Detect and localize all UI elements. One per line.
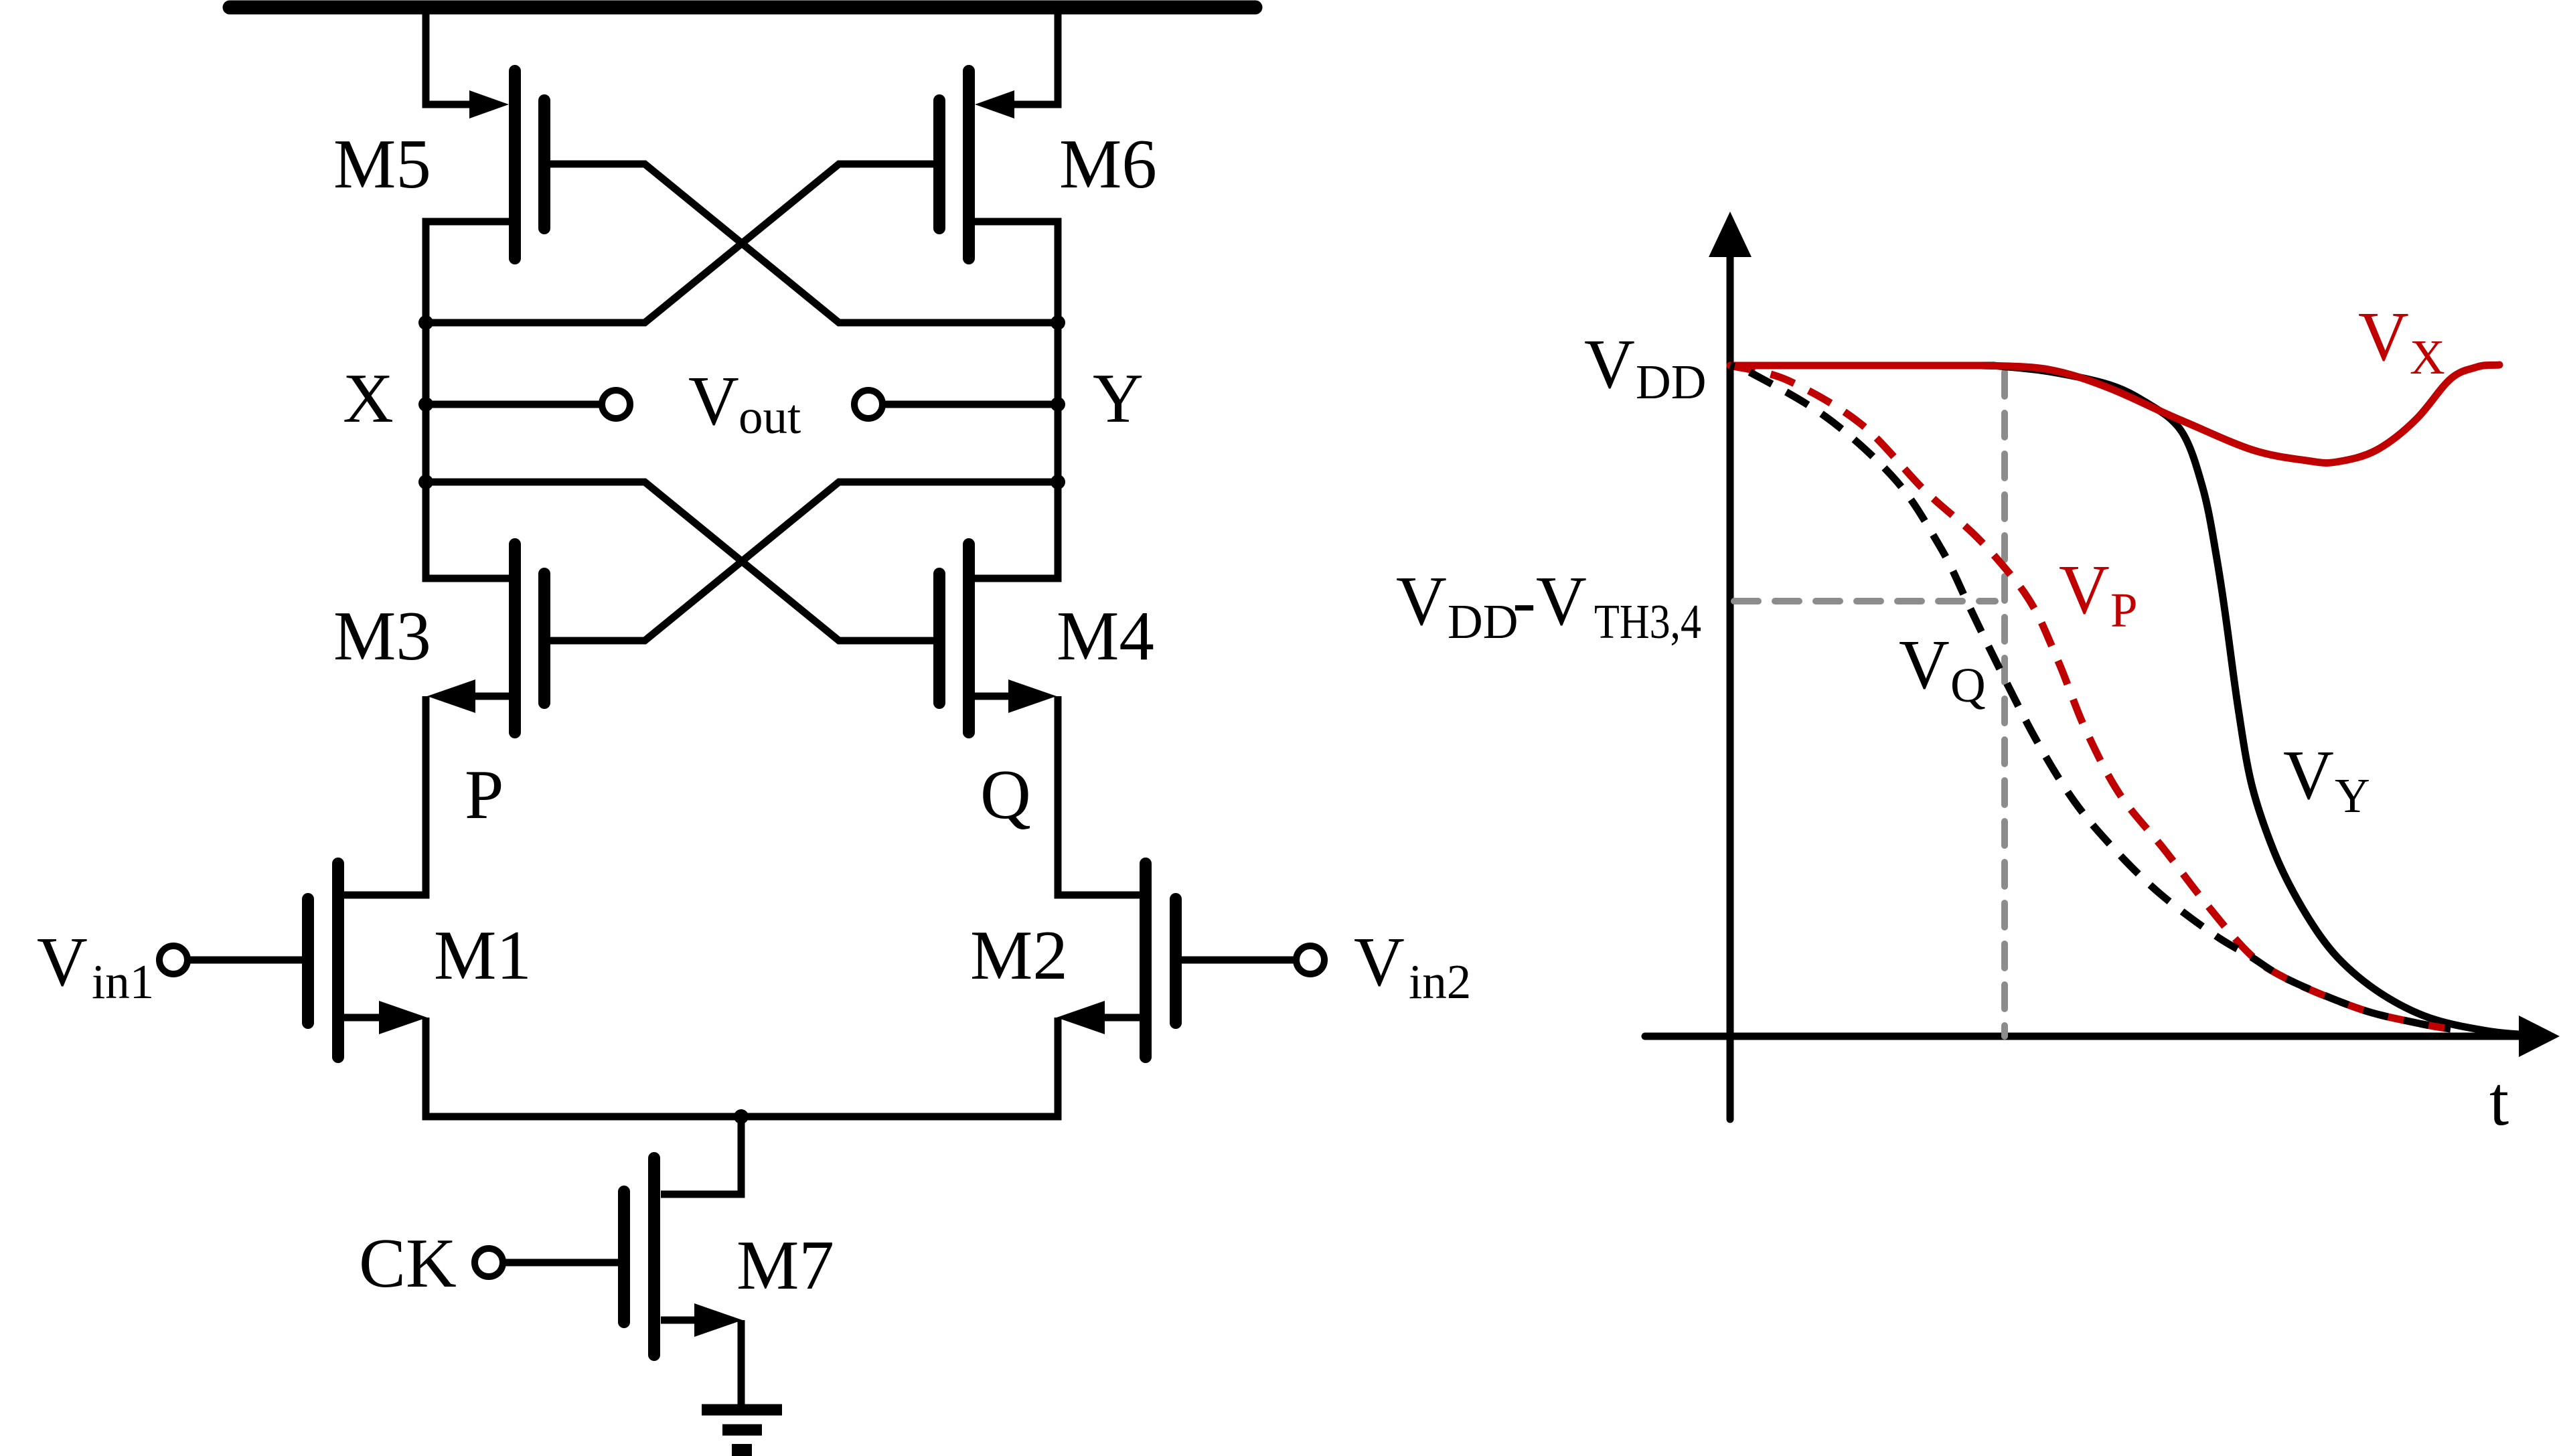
node X junction dots bbox=[418, 315, 433, 489]
svg-text:out: out bbox=[739, 390, 801, 444]
dashed guide line VDD-VTH level (gray) bbox=[1734, 598, 1995, 604]
Vin2 input terminal bbox=[1296, 946, 1324, 974]
tail junction dot bbox=[734, 1109, 749, 1124]
svg-text:V: V bbox=[2283, 736, 2334, 814]
svg-text:Q: Q bbox=[1950, 658, 1986, 712]
Vin1 label bbox=[37, 922, 154, 1009]
Vout right terminal bbox=[854, 390, 882, 418]
svg-text:V: V bbox=[1354, 922, 1405, 1001]
wire M5 gate to node Y (cross-couple) bbox=[550, 164, 1058, 323]
wire VDD to M5 source bbox=[426, 9, 473, 104]
svg-text:M3: M3 bbox=[333, 596, 431, 675]
Vout label bbox=[688, 361, 801, 444]
curve VX (node X voltage, red solid) bbox=[1730, 365, 2499, 463]
svg-text:DD: DD bbox=[1636, 355, 1706, 409]
svg-text:DD: DD bbox=[1448, 594, 1518, 649]
transistor M6 (PMOS) bbox=[939, 71, 1014, 258]
wire node X to M4 gate (cross-couple) bbox=[426, 482, 933, 641]
wire CK to M7 gate bbox=[503, 1259, 618, 1267]
wire node P column bbox=[338, 696, 426, 895]
VDD-VTH3,4 axis label bbox=[1396, 562, 1701, 649]
VQ curve label bbox=[1899, 625, 1986, 712]
wire VDD to M6 source bbox=[1011, 9, 1058, 104]
Vin1 input terminal bbox=[159, 946, 187, 974]
graph time axis (horizontal) bbox=[1645, 1016, 2560, 1057]
svg-text:CK: CK bbox=[359, 1224, 457, 1302]
transistor M7 (NMOS) bbox=[624, 1158, 743, 1355]
node Y junction dots bbox=[1051, 315, 1065, 489]
svg-text:X: X bbox=[343, 359, 394, 437]
CK input terminal bbox=[475, 1248, 503, 1277]
svg-text:M7: M7 bbox=[736, 1226, 834, 1304]
svg-text:-V: -V bbox=[1512, 562, 1587, 640]
svg-text:X: X bbox=[2410, 330, 2445, 384]
svg-text:V: V bbox=[2059, 550, 2110, 629]
svg-text:V: V bbox=[1899, 625, 1950, 704]
wire tail to M7 drain bbox=[661, 1117, 741, 1194]
svg-text:V: V bbox=[688, 361, 739, 440]
VX curve label (red) bbox=[2358, 297, 2445, 384]
transistor M4 (NMOS) bbox=[939, 544, 1057, 732]
Vin2 label bbox=[1354, 922, 1471, 1009]
svg-text:P: P bbox=[465, 755, 503, 833]
wire M6 gate to node X (cross-couple) bbox=[426, 164, 933, 323]
curve VY (node Y voltage, black solid) bbox=[1730, 366, 2528, 1035]
wire node X to Vout terminal bbox=[426, 401, 602, 408]
svg-text:Y: Y bbox=[2335, 769, 2370, 823]
wire M6 drain / node Y column bbox=[975, 222, 1058, 578]
power rail VDD bbox=[230, 1, 1255, 15]
wire node Q column bbox=[1058, 696, 1146, 895]
svg-text:V: V bbox=[1584, 325, 1635, 403]
svg-text:M6: M6 bbox=[1059, 125, 1157, 203]
transistor M5 (PMOS) bbox=[469, 71, 544, 258]
svg-text:Y: Y bbox=[1093, 359, 1144, 437]
transistor M1 (NMOS) bbox=[308, 864, 427, 1057]
wire M3 gate to node Y (cross-couple) bbox=[550, 482, 1058, 641]
transistor M2 (NMOS) bbox=[1057, 864, 1176, 1057]
curve VQ (node Q voltage, black dashed) bbox=[1730, 366, 2451, 1029]
VDD axis label bbox=[1584, 325, 1706, 409]
VP curve label (red) bbox=[2059, 550, 2138, 637]
svg-text:V: V bbox=[1396, 562, 1447, 640]
svg-text:M2: M2 bbox=[970, 916, 1068, 994]
svg-text:V: V bbox=[37, 922, 88, 1001]
wire node Y to Vout terminal bbox=[882, 401, 1058, 408]
svg-text:M5: M5 bbox=[333, 125, 431, 203]
svg-text:t: t bbox=[2489, 1062, 2509, 1140]
wire M5 drain / node X column bbox=[426, 222, 509, 578]
svg-text:Q: Q bbox=[980, 755, 1031, 833]
svg-text:M4: M4 bbox=[1057, 596, 1154, 675]
wire M2 gate to Vin2 bbox=[1182, 957, 1296, 964]
transistor M3 (NMOS) bbox=[427, 544, 544, 732]
svg-text:V: V bbox=[2358, 297, 2409, 376]
ground symbol bbox=[702, 1410, 782, 1450]
wire tail bus (M1/M2 sources) bbox=[426, 1018, 1058, 1117]
Vout left terminal bbox=[602, 390, 630, 418]
graph voltage axis (vertical) bbox=[1709, 212, 1752, 1119]
wire Vin1 to M1 gate bbox=[187, 957, 302, 964]
svg-text:P: P bbox=[2110, 583, 2138, 637]
dashed guide line sampling instant (gray) bbox=[2001, 372, 2008, 1036]
wire M7 source to ground bbox=[738, 1320, 745, 1406]
svg-text:in2: in2 bbox=[1409, 955, 1471, 1009]
curve VP (node P voltage, red dashed) bbox=[1730, 366, 2451, 1029]
svg-text:M1: M1 bbox=[434, 916, 532, 994]
VY curve label bbox=[2283, 736, 2370, 823]
svg-text:TH3,4: TH3,4 bbox=[1594, 594, 1701, 649]
svg-text:in1: in1 bbox=[92, 955, 154, 1009]
